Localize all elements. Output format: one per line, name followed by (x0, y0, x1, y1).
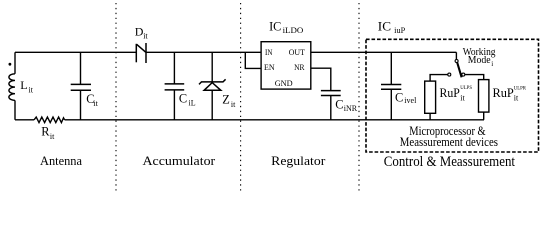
svg-text:GND: GND (275, 78, 293, 88)
wire top rail diode to regulator IN (146, 51, 261, 53)
section divider dotted line 1 (115, 3, 117, 191)
svg-text:iL: iL (189, 99, 196, 108)
wire capacitor C_ivel lower (390, 89, 392, 120)
svg-text:it: it (460, 94, 465, 103)
section divider dotted line 3 (358, 3, 360, 191)
capacitor C_ivel plates (381, 85, 401, 90)
wire zener Z_it upper (211, 52, 213, 82)
wire left antenna branch lower (14, 100, 16, 119)
wire left antenna branch upper (14, 52, 16, 74)
svg-text:ULPS: ULPS (460, 85, 472, 91)
wire top rail antenna to diode (15, 51, 136, 53)
svg-text:it: it (514, 94, 519, 103)
svg-text:iLDO: iLDO (283, 26, 304, 35)
svg-text:R: R (41, 124, 50, 138)
wire capacitor C_ivel upper (390, 52, 392, 84)
svg-text:i: i (491, 60, 493, 68)
switch right throw contact circle (462, 73, 465, 76)
wire NR pin to capacitor (311, 68, 331, 90)
wire switch common drop (455, 52, 457, 59)
svg-text:IN: IN (265, 47, 273, 57)
wire left throw to resistor ULPS (430, 75, 448, 82)
wire resistor ULPS bottom stub (429, 113, 431, 120)
svg-text:C: C (179, 92, 187, 106)
svg-text:it: it (93, 99, 98, 108)
svg-text:EN: EN (264, 62, 275, 72)
wire top rail regulator OUT to switch (311, 51, 457, 53)
wire bottom rail right of resistor (65, 119, 484, 121)
svg-text:Antenna: Antenna (40, 154, 82, 168)
wire capacitor C_it lower (80, 90, 82, 120)
svg-text:it: it (50, 132, 55, 141)
svg-text:it: it (143, 31, 148, 40)
svg-text:ivel: ivel (404, 96, 417, 105)
inductor L_it coil (9, 74, 15, 101)
wire EN tie from rail (245, 52, 261, 68)
svg-text:Z: Z (222, 93, 230, 107)
inductor polarity dot (9, 63, 12, 66)
switch common contact circle (455, 60, 458, 63)
svg-text:ULPR: ULPR (514, 86, 526, 92)
svg-text:iuP: iuP (394, 26, 406, 35)
zener Z_it cathode bar with bent tips (199, 79, 226, 84)
svg-text:C: C (395, 91, 403, 105)
svg-text:Mode: Mode (468, 54, 491, 66)
wire bottom rail left of resistor (15, 119, 34, 121)
wire capacitor C_iNR lower (330, 96, 332, 120)
svg-text:IC: IC (269, 18, 281, 33)
switch lever (457, 63, 461, 78)
section divider dotted line 2 (240, 3, 242, 191)
svg-text:RuP: RuP (440, 85, 460, 100)
svg-text:OUT: OUT (289, 47, 306, 57)
wire right throw to resistor ULPR (465, 75, 484, 80)
zener Z_it triangle (204, 83, 221, 91)
wire capacitor C_iL lower (173, 90, 175, 120)
wire zener Z_it lower (211, 90, 213, 120)
wire resistor ULPR bottom stub (483, 112, 485, 120)
resistor R_it zigzag (34, 117, 65, 123)
svg-text:RuP: RuP (493, 85, 514, 100)
svg-text:C: C (335, 98, 343, 112)
wire capacitor C_it upper (80, 52, 82, 84)
svg-text:Control & Meassurement: Control & Meassurement (384, 154, 515, 170)
control section dashed box (366, 39, 539, 152)
diode D_it diagonal (137, 44, 146, 52)
svg-text:NR: NR (294, 62, 305, 72)
capacitor C_iNR plates (321, 91, 341, 96)
svg-text:Regulator: Regulator (271, 154, 326, 168)
diode D_it anode bar (135, 44, 137, 63)
capacitor C_iL plates (165, 84, 185, 90)
svg-text:IC: IC (378, 19, 391, 34)
switch left throw contact circle (448, 73, 451, 76)
svg-text:L: L (20, 78, 27, 92)
diode D_it cathode bar (145, 43, 147, 63)
capacitor C_it plates (71, 84, 91, 90)
wire capacitor C_iL upper (173, 52, 175, 84)
svg-text:it: it (29, 85, 34, 94)
svg-text:it: it (231, 100, 236, 109)
svg-text:Accumulator: Accumulator (143, 154, 217, 168)
resistor RuP ULPS box (425, 81, 436, 113)
regulator IC box (261, 42, 311, 89)
svg-text:iNR: iNR (344, 104, 358, 113)
svg-text:Meassurement devices: Meassurement devices (400, 135, 498, 149)
resistor RuP ULPR box (479, 80, 489, 113)
